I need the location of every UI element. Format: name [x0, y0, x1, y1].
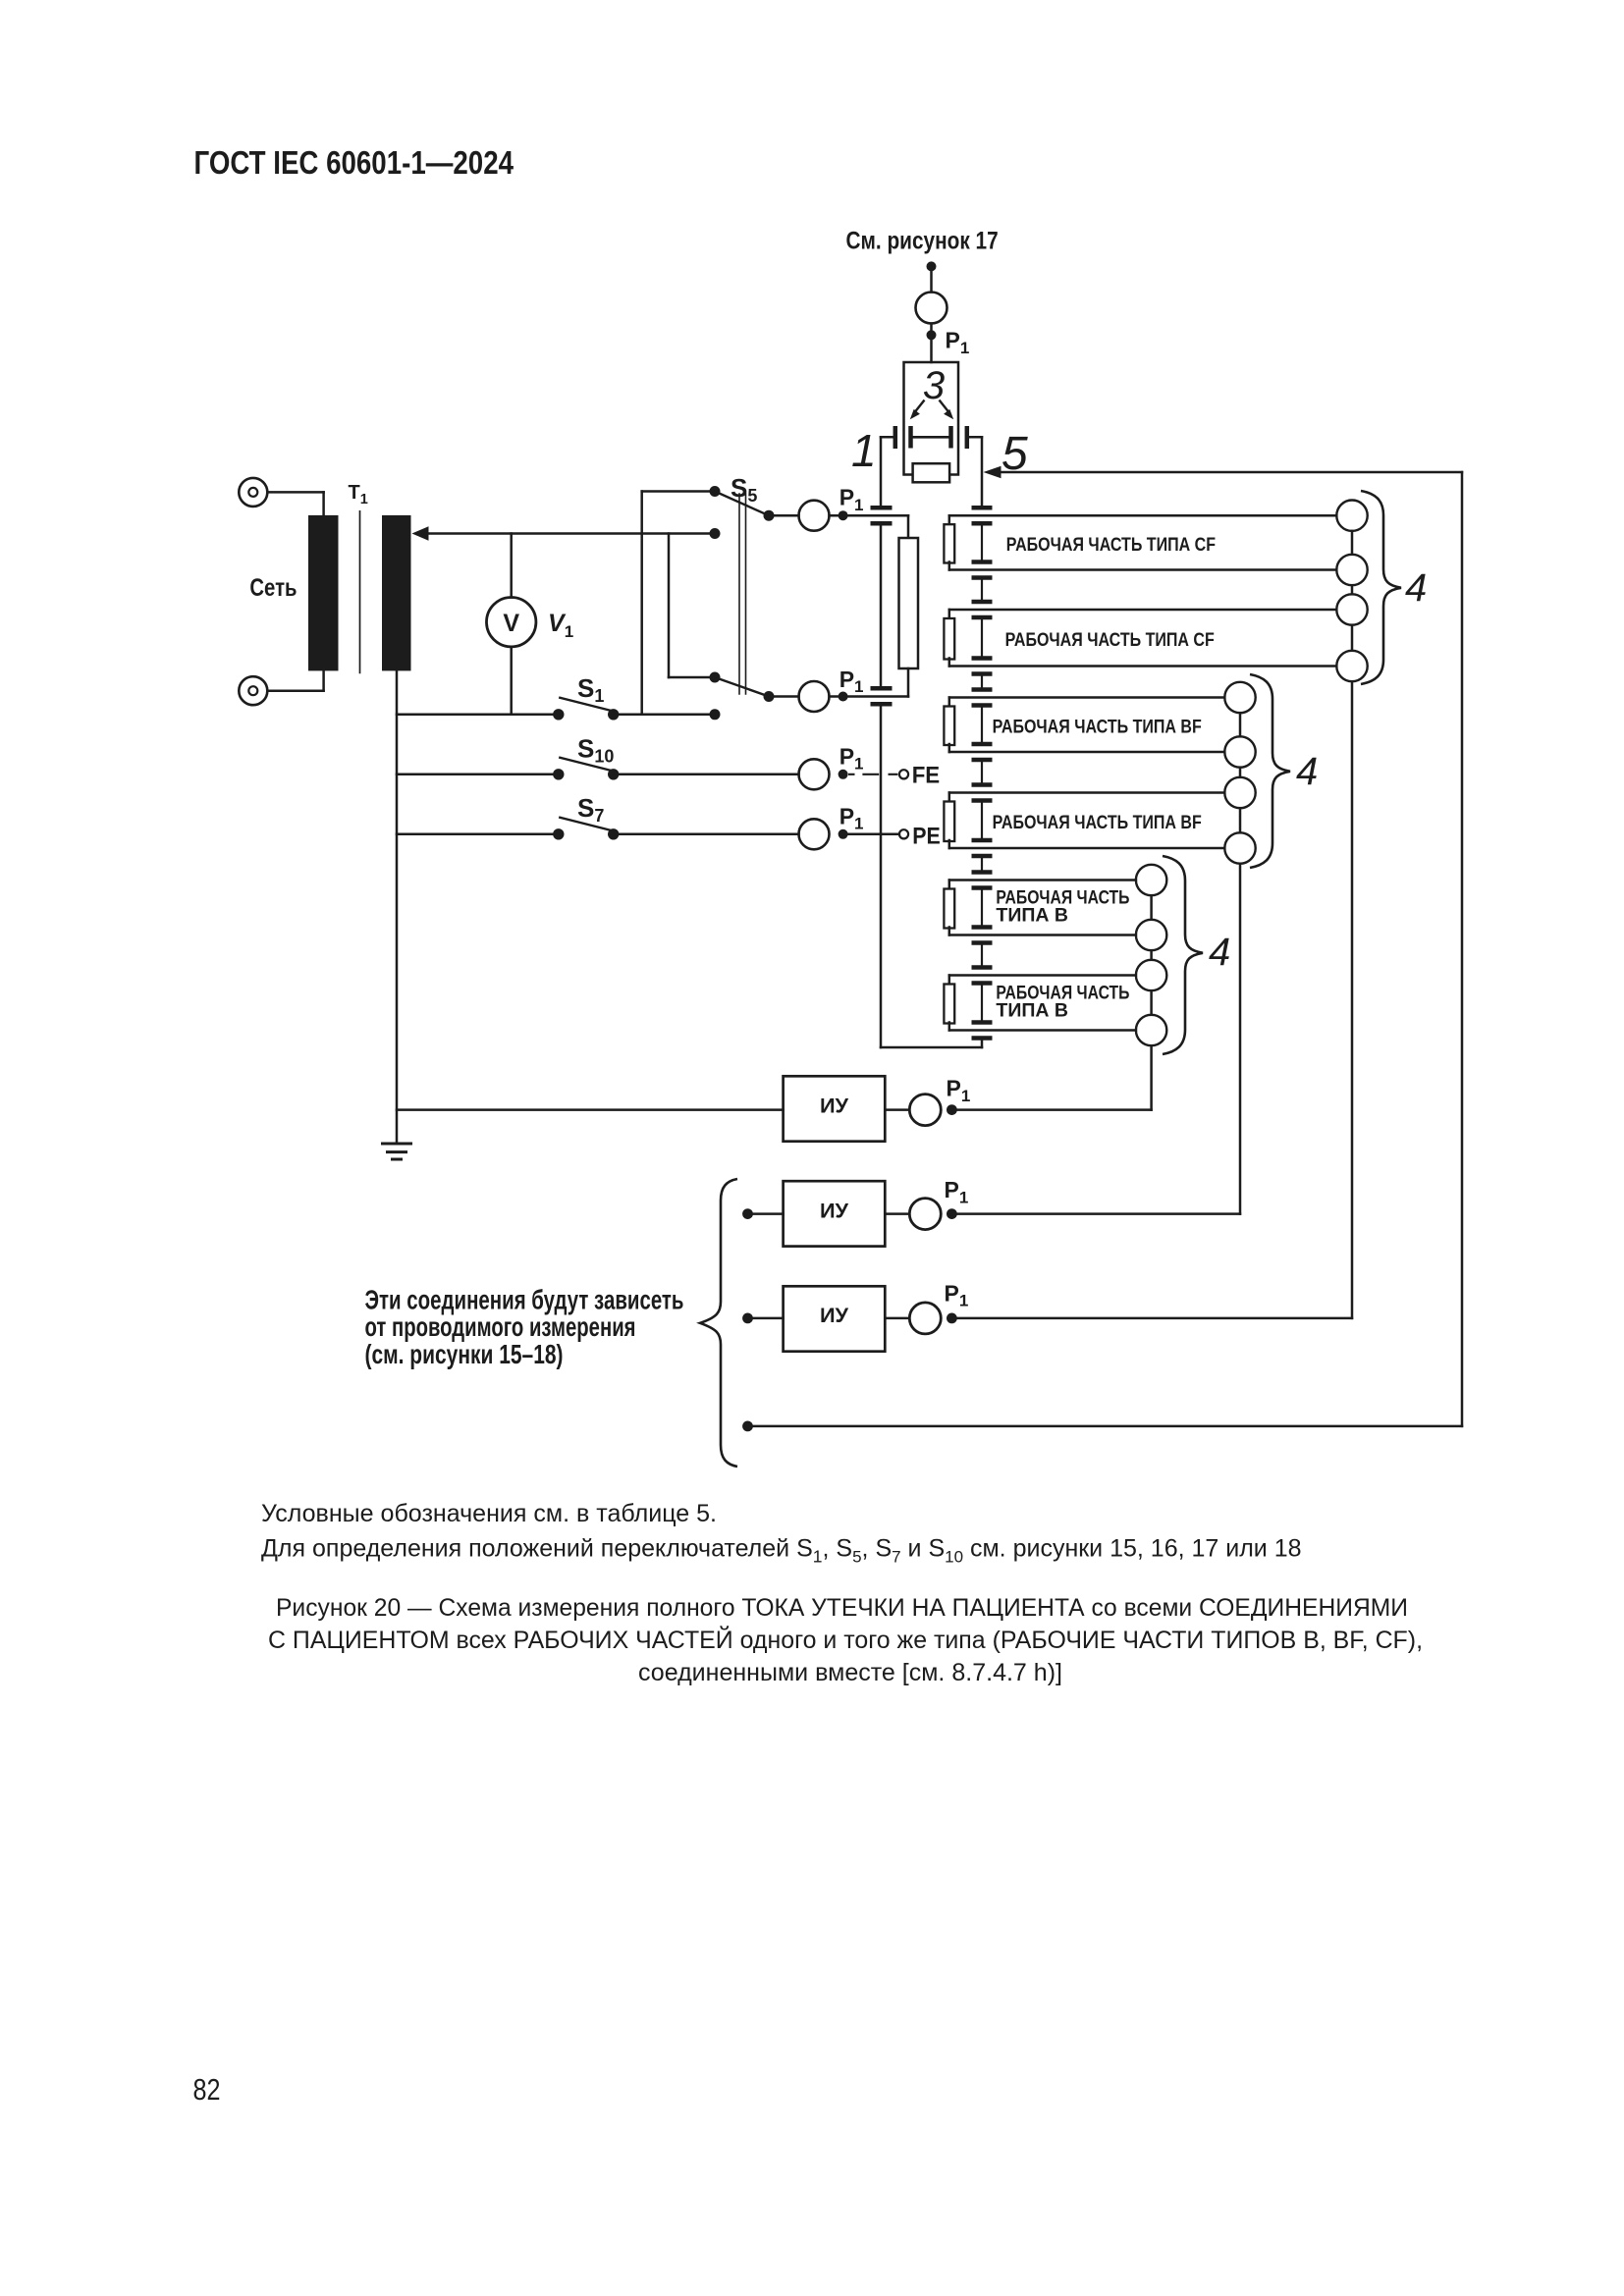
- wire: BF circles down to MD2: [1239, 864, 1242, 1214]
- patient-connection capacitor plates at CF2 top edge: [972, 600, 993, 605]
- patient-connection capacitor plates at B1 top edge: [972, 870, 993, 875]
- wire S1 rail up to S5 pole 1: [642, 490, 715, 493]
- node P1 FE row: [839, 770, 848, 779]
- svg-text:ИУ: ИУ: [820, 1094, 849, 1118]
- svg-text:P1: P1: [946, 328, 970, 357]
- patient-connection capacitor plates at BF1 bottom edge: [972, 742, 993, 747]
- wire S5 pole2 to measuring circle: [769, 695, 799, 698]
- measuring point circle MD3: [909, 1303, 941, 1334]
- wire P1 row 1 to resistor R1: [830, 514, 909, 517]
- mains terminal (bottom): [239, 676, 267, 705]
- patient-connection capacitor plates at CF1 bottom edge: [972, 560, 993, 564]
- wire to voltmeter: [510, 534, 513, 598]
- transformer core line: [359, 511, 361, 673]
- node P1 MD2: [947, 1208, 957, 1219]
- S5 pole1 blade: [715, 492, 769, 516]
- dashed wire to FE terminal: [848, 774, 897, 775]
- svg-text:Сеть: Сеть: [249, 574, 297, 602]
- wire R1 bottom to P1 row 2: [907, 668, 910, 697]
- S5 mechanical link line a: [738, 494, 740, 694]
- wire stub up to bus bottom plate: [981, 1040, 984, 1047]
- svg-text:S1: S1: [577, 673, 604, 706]
- svg-text:P1: P1: [839, 804, 864, 833]
- wire: bus top segment: [981, 437, 984, 506]
- measuring device MD1 box: [784, 1076, 886, 1141]
- wire MD1 to B circles chain: [951, 1108, 1151, 1111]
- measuring point circle PE row: [799, 819, 830, 849]
- node: free lead of MD3: [742, 1313, 753, 1324]
- svg-text:ТИПА В: ТИПА В: [996, 905, 1068, 927]
- capacitor plate above P1 row 1 (left leg): [871, 506, 893, 510]
- svg-text:1: 1: [851, 425, 877, 476]
- patient-connection capacitor plates at BF1 top edge: [972, 687, 993, 692]
- svg-text:P1: P1: [945, 1177, 969, 1206]
- applied part type CF #1: [944, 501, 1367, 586]
- wire rail to S1: [397, 714, 553, 717]
- svg-text:3: 3: [923, 364, 945, 407]
- svg-text:Рисунок 20 — Схема измерения п: Рисунок 20 — Схема измерения полного ТОК…: [276, 1594, 1408, 1622]
- svg-text:Эти соединения будут зависеть: Эти соединения будут зависеть: [365, 1285, 684, 1315]
- svg-text:соединенными вместе [см. 8.7.4: соединенными вместе [см. 8.7.4.7 h)]: [638, 1659, 1062, 1686]
- wire: [267, 491, 323, 494]
- svg-text:См. рисунок 17: См. рисунок 17: [846, 228, 999, 255]
- S1 contact left: [553, 709, 564, 720]
- svg-text:T1: T1: [349, 482, 368, 507]
- S5 pole2 blade: [715, 677, 769, 697]
- inter-row connectors of patient connection circles: [1351, 585, 1354, 594]
- wire: bus stem above BF2 bottom edge: [981, 801, 983, 841]
- wire: secondary top to S5 contact: [427, 532, 715, 535]
- measuring point circle MD1: [909, 1095, 941, 1126]
- svg-text:4: 4: [1209, 931, 1230, 974]
- wire: bottom loop horizontal: [748, 1425, 1463, 1428]
- svg-text:ГОСТ IEC 60601-1—2024: ГОСТ IEC 60601-1—2024: [194, 144, 514, 181]
- S7 blade: [560, 818, 616, 831]
- svg-text:РАБОЧАЯ ЧАСТЬ ТИПА CF: РАБОЧАЯ ЧАСТЬ ТИПА CF: [1006, 534, 1216, 556]
- applied part type B #2: [944, 960, 1166, 1045]
- wire: [322, 670, 325, 690]
- capacitor plate above P1 row 2 (left leg): [871, 686, 893, 691]
- svg-text:S10: S10: [577, 734, 614, 767]
- terminal FE: [899, 770, 908, 778]
- wire S7 to measuring circle: [619, 833, 798, 836]
- wire branch of secondary-top to S5 pole 2: [668, 534, 671, 678]
- outer capacitor plate (left) of box 3: [893, 426, 898, 449]
- measuring point circle (top): [916, 293, 947, 324]
- wire: bus stem above BF1 top edge: [981, 674, 983, 690]
- wire: bus stem above BF2 top edge: [981, 760, 983, 785]
- patient-connection capacitor plates at B2 bottom edge: [972, 1020, 993, 1025]
- node: bottom free connection: [742, 1421, 753, 1432]
- transformer T1 primary winding bar: [308, 515, 339, 671]
- resistor in box 3 bottom edge: [913, 463, 950, 482]
- wire: left leg between P1 rows: [880, 525, 883, 686]
- outer capacitor plate (right) of box 3: [965, 426, 970, 449]
- patient-connection capacitor plates at B2 top edge: [972, 965, 993, 970]
- svg-text:V1: V1: [548, 610, 573, 641]
- S1 contact right: [608, 709, 619, 720]
- measuring device MD3 box: [784, 1286, 886, 1351]
- patient-connection capacitor plates at B1 bottom edge: [972, 925, 993, 930]
- wire vertical S1 rail riser: [640, 492, 643, 715]
- svg-text:82: 82: [193, 2072, 221, 2107]
- S7 contact left: [553, 828, 564, 839]
- voltmeter V1 circle: [487, 598, 536, 647]
- wire: [930, 324, 933, 331]
- svg-text:Условные обозначения см. в таб: Условные обозначения см. в таблице 5.: [261, 1500, 717, 1527]
- svg-text:ИУ: ИУ: [820, 1198, 849, 1222]
- svg-text:FE: FE: [912, 762, 941, 788]
- svg-text:РАБОЧАЯ ЧАСТЬ ТИПА BF: РАБОЧАЯ ЧАСТЬ ТИПА BF: [993, 812, 1202, 833]
- svg-text:(см. рисунки 15–18): (см. рисунки 15–18): [365, 1339, 564, 1369]
- wire from right plate of box 3: [967, 436, 982, 439]
- inner contact plate (right) of box 3: [948, 426, 953, 449]
- wire S5 pole1 to measuring circle: [769, 514, 799, 517]
- arrow (right) inside box 3: [940, 400, 949, 412]
- measuring point circle row 1: [799, 501, 830, 531]
- mains terminal (top): [239, 478, 267, 507]
- S5 pole1 throw contact (lower): [710, 528, 721, 539]
- S5 pole1 throw contact: [710, 486, 721, 497]
- arrow into T1 secondary: [412, 526, 429, 541]
- applied part type B #1: [944, 865, 1166, 950]
- svg-text:от проводимого измерения: от проводимого измерения: [365, 1311, 636, 1342]
- patient-connection capacitor plates at CF1 top edge: [972, 506, 993, 510]
- wire: bus stem above CF2 top edge: [981, 578, 983, 603]
- wire: [322, 492, 325, 515]
- measuring point circle row 2: [799, 681, 830, 712]
- node P1 MD1: [947, 1104, 957, 1115]
- wire: [669, 676, 715, 679]
- S10 contact right: [608, 769, 619, 779]
- svg-text:S7: S7: [577, 793, 604, 826]
- wire MD3 to CF circles chain: [951, 1317, 1352, 1320]
- patient-connection capacitor plates at BF2 bottom edge: [972, 838, 993, 843]
- wire: [748, 1212, 784, 1215]
- wire: [885, 1108, 908, 1111]
- wire earth rail to MD1: [397, 1108, 784, 1111]
- wire: left leg down past FE/PE to bottom: [880, 706, 883, 1047]
- S5 pole2 throw contact: [710, 672, 721, 683]
- applied part type BF #2: [944, 777, 1255, 864]
- svg-text:РАБОЧАЯ ЧАСТЬ ТИПА CF: РАБОЧАЯ ЧАСТЬ ТИПА CF: [1005, 629, 1215, 651]
- arrow (left) inside box 3: [915, 400, 925, 412]
- brace for measurement-dependent connections: [700, 1179, 737, 1467]
- wire rail to S7: [397, 833, 553, 836]
- svg-text:С ПАЦИЕНТОМ всех РАБОЧИХ ЧАСТЕ: С ПАЦИЕНТОМ всех РАБОЧИХ ЧАСТЕЙ одного и…: [268, 1625, 1423, 1654]
- terminal PE: [899, 829, 908, 838]
- wire from node 5 loop: [1000, 471, 1462, 474]
- node: free lead of MD2: [742, 1208, 753, 1219]
- S5 pole1 pivot: [764, 510, 775, 521]
- wire from left plate of box 3: [881, 436, 895, 439]
- S1 blade: [560, 698, 616, 712]
- wire down into R1: [907, 515, 910, 538]
- svg-text:PE: PE: [912, 823, 941, 849]
- wire: bottom link to patient-connection bus: [881, 1046, 982, 1049]
- wire: bus stem above BF1 bottom edge: [981, 706, 983, 745]
- svg-text:ИУ: ИУ: [820, 1303, 849, 1327]
- svg-text:Для определения положений пере: Для определения положений переключателей…: [261, 1534, 1302, 1566]
- svg-text:РАБОЧАЯ ЧАСТЬ ТИПА BF: РАБОЧАЯ ЧАСТЬ ТИПА BF: [993, 717, 1202, 738]
- resistor R1 (measuring supply): [899, 538, 919, 668]
- wire rail to S10: [397, 774, 553, 776]
- S7 contact right: [608, 828, 619, 839]
- svg-text:P1: P1: [839, 485, 864, 514]
- wire: [885, 1212, 908, 1215]
- wire: bus stem above B2 top edge: [981, 943, 983, 968]
- wire: [267, 689, 323, 692]
- wire: [748, 1317, 784, 1320]
- wire: CF circles down to MD3: [1351, 681, 1354, 1318]
- S10 contact left: [553, 769, 564, 779]
- capacitor plate below P1 row 1 (left leg): [871, 521, 893, 526]
- S5 pole2 throw contact (lower): [710, 709, 721, 720]
- brace B group: [1163, 856, 1203, 1054]
- svg-text:P1: P1: [839, 744, 864, 774]
- earth ground symbol: [383, 1143, 411, 1146]
- box 3 outline: [904, 362, 959, 475]
- applied part type BF #1: [944, 682, 1255, 768]
- measuring point circle MD2: [909, 1199, 941, 1230]
- patient-connection capacitor plates at BF2 top edge: [972, 782, 993, 787]
- wire into box 3: [930, 340, 933, 362]
- wire: bus stem above B2 bottom edge: [981, 984, 983, 1023]
- measuring device MD2 box: [784, 1181, 886, 1246]
- wire: bus stem above CF1 bottom edge: [981, 523, 983, 561]
- S10 blade: [560, 758, 616, 772]
- svg-text:V: V: [503, 610, 519, 637]
- patient-connection capacitor plates at CF2 bottom edge: [972, 656, 993, 661]
- applied part type CF #2: [944, 594, 1367, 681]
- capacitor plate below P1 row 2 (left leg): [871, 702, 893, 707]
- S5 mechanical link line b: [745, 494, 747, 694]
- wire: [885, 1317, 908, 1320]
- wire voltmeter to S1 rail: [510, 647, 513, 715]
- transformer T1 secondary winding bar: [382, 515, 411, 671]
- brace CF group: [1361, 491, 1401, 684]
- wire: B circles down to MD1: [1150, 1045, 1153, 1109]
- wire top stub: [930, 271, 933, 293]
- brace BF group: [1250, 674, 1290, 868]
- svg-text:4: 4: [1296, 750, 1318, 793]
- svg-text:P1: P1: [945, 1281, 969, 1310]
- wire: secondary bottom rail down to earth: [396, 670, 399, 1144]
- wire MD2 to BF circles chain: [951, 1212, 1240, 1215]
- node P1 (top): [927, 330, 937, 340]
- svg-text:4: 4: [1405, 566, 1427, 610]
- wire: bus stem above CF2 bottom edge: [981, 617, 983, 659]
- node P1 MD3: [947, 1313, 957, 1324]
- wire P1 row 2 through capacitor gap: [830, 695, 909, 698]
- wire: bus stem above B1 top edge: [981, 856, 983, 873]
- node: connection to figure 17: [927, 261, 937, 271]
- measuring point circle FE row: [799, 759, 830, 789]
- node P1 PE row: [839, 829, 848, 839]
- wire: left leg down to P1 row 1: [880, 437, 883, 506]
- wire: bus stem above B1 bottom edge: [981, 888, 983, 928]
- svg-text:P1: P1: [947, 1076, 971, 1105]
- contact bridge inside box 3: [913, 436, 949, 439]
- node P1 row 2: [839, 692, 848, 702]
- wire to PE terminal: [848, 833, 899, 836]
- svg-text:ТИПА В: ТИПА В: [996, 1000, 1068, 1022]
- S5 pole2 pivot: [764, 691, 775, 702]
- wire S10 to measuring circle: [619, 774, 798, 776]
- node P1 row 1: [839, 510, 848, 520]
- inner contact plate (left) of box 3: [908, 426, 913, 449]
- wire S1 to riser and S5: [619, 714, 715, 717]
- wire: far right loop vertical: [1461, 472, 1464, 1426]
